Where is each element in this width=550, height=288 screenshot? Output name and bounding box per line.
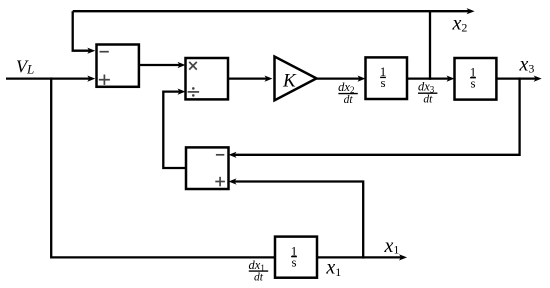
wire W12: x1 branch up and left into S2 plus input (229, 178, 364, 257)
integrator I3 (275, 237, 317, 278)
S1 plus sign (99, 75, 110, 85)
U1 divide sign (188, 87, 200, 97)
gain amplifier K (275, 57, 317, 101)
node C: x3 branch junction on I2 output (518, 77, 520, 79)
wire W9: x3 feedback down and left into S2 minus input (229, 79, 520, 158)
integrator I1 (366, 57, 408, 99)
wire W6: I1 output to I2 input (407, 76, 455, 82)
wire W1: VL input to summer S1 plus (6, 76, 95, 82)
svg-text:dt: dt (423, 93, 433, 105)
svg-text:s: s (470, 76, 475, 91)
label dx1/dt (249, 258, 269, 283)
svg-text:s: s (380, 75, 385, 90)
summing junction S2 (186, 147, 229, 189)
svg-text:dt: dt (344, 94, 354, 106)
wire W7: x2 feedback from node up to top line, left and down into S1 minus (73, 8, 475, 79)
multiplier-divider block U1 (186, 58, 229, 99)
summing junction S1 (97, 45, 139, 87)
integrator I2 (455, 58, 497, 100)
wire W5: gain K output to integrator I1 input (317, 76, 366, 82)
wire W3: S1 output to multiplier input (139, 62, 186, 68)
label dx2/dt (338, 80, 358, 106)
node D: x1 branch junction on I3 output (362, 256, 364, 258)
wire W2: VL branch down and right to integrator I3 input (51, 79, 275, 258)
S2 plus sign (215, 177, 225, 187)
node A: VL branch junction (50, 77, 52, 79)
svg-text:dt: dt (254, 271, 264, 283)
wire W4: multiplier output to gain K input (228, 76, 273, 82)
wire W10: S2 output left and up into divider input (163, 89, 186, 169)
node B: dx3/dt junction on I1 output (429, 77, 431, 79)
S1 minus sign (100, 51, 109, 53)
S2 minus sign (216, 154, 224, 156)
wire W11: I3 output to x1 output arrow (317, 254, 407, 260)
U1 multiply sign (189, 62, 197, 70)
svg-text:K: K (282, 70, 297, 91)
label dx3/dt (418, 80, 437, 106)
wire W8: I2 output to x3 output arrow (496, 76, 541, 82)
svg-text:s: s (291, 255, 296, 270)
